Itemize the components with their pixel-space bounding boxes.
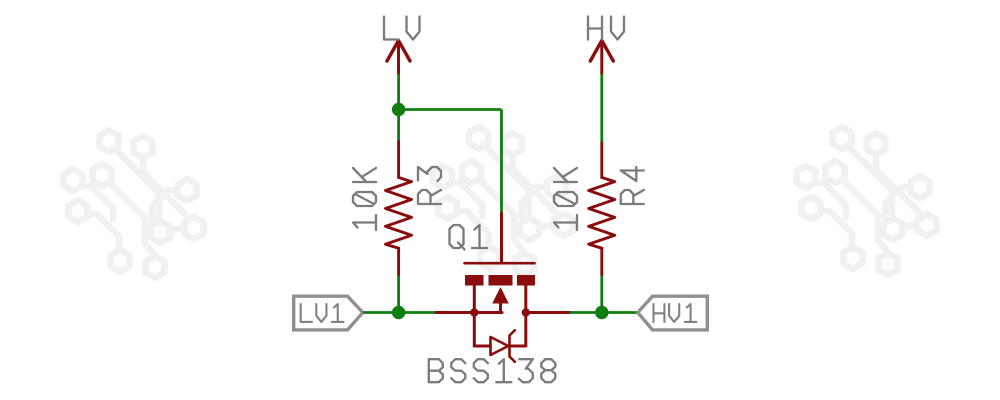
label LV1 xyxy=(301,304,344,322)
junction dot Q1 source xyxy=(470,308,478,316)
wire R3 to LV1 junction xyxy=(397,276,400,313)
label R3 name xyxy=(418,167,441,204)
wire junction to gate (horizontal) xyxy=(399,108,502,111)
net flag LV1 xyxy=(294,296,363,330)
junction dot LV1 xyxy=(392,306,405,319)
wire gate vertical xyxy=(500,110,503,214)
wire LV arrow to junction xyxy=(397,74,400,110)
wire LV1 flag to junction xyxy=(363,311,399,314)
junction dot Q1 drain xyxy=(522,308,530,316)
supply arrow HV xyxy=(590,41,613,75)
resistor R3 xyxy=(386,142,412,277)
label HV xyxy=(588,17,624,40)
wire LV1 junction to Q1 source xyxy=(399,311,436,314)
wire HV arrow to R4 xyxy=(600,74,603,143)
resistor R4 xyxy=(589,143,615,276)
junction dot HV1 xyxy=(595,306,608,319)
wire R4 to HV1 junction xyxy=(600,276,603,313)
net flag HV1 xyxy=(638,296,708,330)
label Q1 xyxy=(450,225,488,250)
label R4 value 10K xyxy=(554,168,577,230)
wire HV1 junction to flag xyxy=(602,311,638,314)
wire junction to R3 xyxy=(397,110,400,142)
label R4 name xyxy=(621,167,644,204)
label BSS138 xyxy=(429,359,556,382)
label R3 value 10K xyxy=(353,168,376,230)
label LV xyxy=(384,17,420,40)
label HV1 xyxy=(654,304,697,322)
junction dot LV top xyxy=(392,103,405,116)
wire Q1 drain to HV1 junction xyxy=(570,311,602,314)
transistor Q1 xyxy=(436,213,570,362)
supply arrow LV xyxy=(387,41,410,75)
